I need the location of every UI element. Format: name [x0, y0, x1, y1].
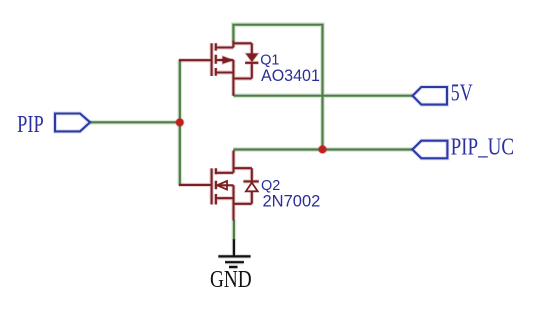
svg-text:2N7002: 2N7002 [263, 192, 321, 210]
svg-text:5V: 5V [451, 80, 473, 106]
svg-text:AO3401: AO3401 [261, 67, 320, 85]
svg-text:PIP_UC: PIP_UC [451, 135, 514, 161]
svg-text:GND: GND [210, 267, 252, 293]
svg-text:PIP: PIP [17, 112, 44, 138]
